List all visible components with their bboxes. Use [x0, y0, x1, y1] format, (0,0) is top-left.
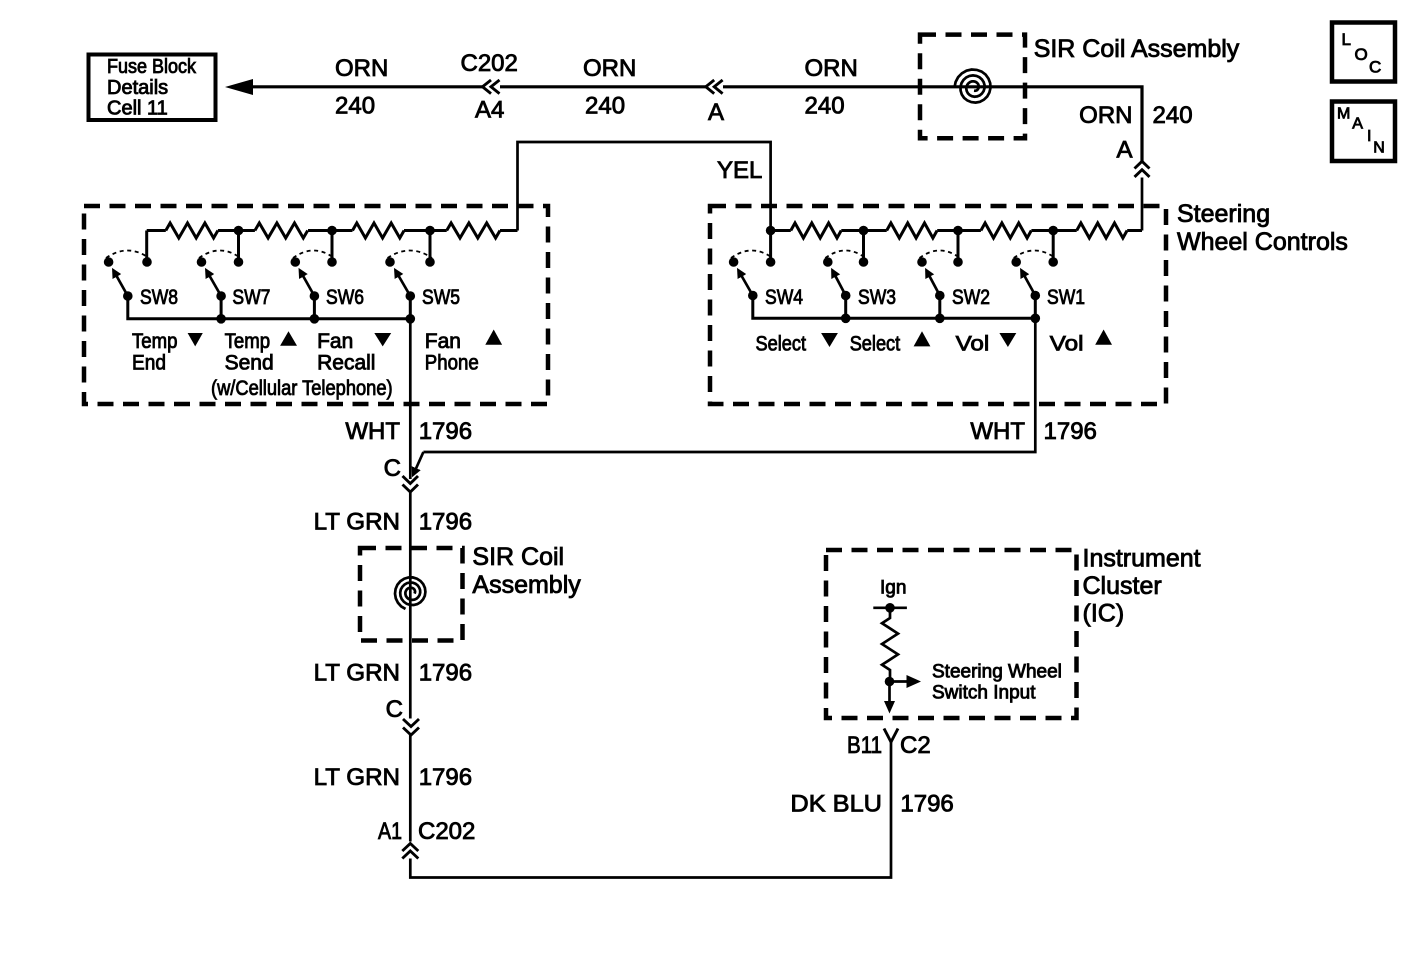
stub wires chain to contacts (left box)	[147, 231, 430, 263]
connector A chevrons (vertical run)	[1135, 161, 1150, 177]
svg-text:C202: C202	[418, 818, 475, 845]
svg-text:DK BLU: DK BLU	[790, 791, 882, 818]
resistor chain straight segments (right box)	[771, 229, 1142, 232]
bottom wire run to instrument cluster	[410, 742, 891, 878]
svg-text:ORN: ORN	[805, 55, 858, 82]
svg-text:Steering: Steering	[1177, 200, 1270, 228]
triangle down (select)	[821, 333, 838, 347]
resistor R (right box 1)	[791, 223, 841, 238]
chain node dots (left box)	[234, 226, 244, 236]
steering wheel controls box (right)	[710, 206, 1166, 404]
svg-text:Send: Send	[225, 352, 274, 375]
switch SW5 dashed arc	[388, 251, 433, 259]
svg-text:Temp: Temp	[225, 330, 271, 353]
switch SW1 contacts	[1011, 257, 1021, 267]
svg-text:Instrument: Instrument	[1083, 545, 1201, 573]
switch input branch wire	[890, 680, 908, 683]
svg-text:Wheel Controls: Wheel Controls	[1177, 228, 1348, 256]
switch SW3 dashed arc	[825, 251, 865, 259]
switch SW4 pivot	[748, 291, 758, 301]
svg-text:SW8: SW8	[140, 286, 178, 309]
connector A1 C202 chevrons	[402, 844, 418, 859]
switch SW2 dashed arc	[920, 251, 961, 259]
svg-text:1796: 1796	[419, 660, 472, 687]
resistor R (left box 3)	[353, 223, 405, 238]
resistor R (right box 4)	[1077, 223, 1127, 238]
switch SW5 contacts	[385, 257, 395, 267]
svg-text:1796: 1796	[419, 509, 472, 536]
svg-text:SW4: SW4	[765, 286, 803, 309]
svg-text:Recall: Recall	[317, 352, 375, 375]
svg-text:C: C	[386, 696, 403, 723]
svg-text:SW2: SW2	[952, 286, 990, 309]
chain node dots (right box)	[766, 226, 776, 236]
svg-text:LT GRN: LT GRN	[314, 509, 400, 536]
triangle down (fan recall)	[374, 333, 391, 346]
switch SW1 dashed arc	[1014, 251, 1055, 259]
switch SW5 arm	[396, 271, 411, 297]
switch common bus (left box)	[128, 296, 411, 319]
svg-text:Fan: Fan	[317, 330, 353, 353]
switch SW1 pivot	[1031, 291, 1041, 301]
resistor (instrument cluster pull-up)	[882, 608, 898, 682]
svg-text:Ign: Ign	[880, 578, 906, 599]
triangle up (vol)	[1095, 330, 1112, 345]
switch SW3 arm	[833, 271, 846, 296]
svg-text:L: L	[1342, 30, 1351, 49]
switch SW7 contacts	[197, 257, 207, 267]
svg-text:SW1: SW1	[1047, 286, 1085, 309]
svg-text:240: 240	[585, 93, 625, 120]
svg-text:Switch Input: Switch Input	[932, 683, 1036, 704]
svg-text:ORN: ORN	[335, 55, 388, 82]
svg-text:Cell 11: Cell 11	[107, 98, 168, 120]
MAIN legend box	[1332, 102, 1395, 162]
SIR coil spiral (middle)	[395, 577, 425, 609]
svg-text:ORN: ORN	[583, 55, 636, 82]
switch SW8 pivot	[123, 291, 133, 301]
svg-text:Vol: Vol	[956, 333, 990, 356]
svg-text:1796: 1796	[900, 791, 953, 818]
svg-text:A: A	[708, 99, 724, 126]
switch SW3 pivot	[841, 291, 851, 301]
svg-text:C: C	[1369, 58, 1381, 77]
svg-text:Fuse Block: Fuse Block	[107, 56, 197, 78]
svg-text:M: M	[1337, 105, 1350, 122]
switch SW3 contacts	[823, 257, 833, 267]
switch SW2 arm	[927, 271, 940, 296]
svg-text:A1: A1	[378, 818, 402, 845]
switch SW6 dashed arc	[293, 251, 334, 259]
switch SW8 dashed arc	[106, 251, 149, 259]
svg-text:1796: 1796	[419, 764, 472, 791]
svg-text:SW5: SW5	[422, 286, 460, 309]
SIR coil assembly box (top)	[920, 35, 1025, 139]
svg-text:WHT: WHT	[970, 418, 1025, 445]
svg-text:(IC): (IC)	[1083, 600, 1125, 628]
resistor chain straight segments (left box)	[147, 229, 518, 232]
wire WHT 1796 (left drop)	[409, 319, 412, 479]
svg-text:240: 240	[335, 93, 375, 120]
svg-text:1796: 1796	[419, 418, 472, 445]
svg-text:Select: Select	[850, 333, 901, 356]
Ign supply bar	[873, 606, 907, 609]
svg-text:End: End	[132, 352, 166, 375]
bus junction dots (left box)	[216, 314, 226, 324]
switch SW7 dashed arc	[199, 251, 241, 259]
diagonal merge wire with arrow at connector C	[413, 452, 423, 475]
pin socket symbol B11	[884, 729, 898, 743]
svg-text:Details: Details	[107, 77, 168, 99]
LOC legend box	[1332, 23, 1395, 82]
switch SW1 arm	[1022, 271, 1036, 296]
wire ORN 240 segment 3	[723, 87, 1142, 162]
svg-text:C: C	[384, 455, 401, 482]
svg-text:Vol: Vol	[1050, 333, 1084, 356]
fuse block details box	[89, 55, 216, 121]
svg-text:A: A	[1116, 137, 1132, 164]
svg-text:(w/Cellular Telephone): (w/Cellular Telephone)	[211, 377, 393, 400]
switch SW6 arm	[300, 271, 314, 297]
SIR coil assembly box (middle)	[360, 548, 463, 641]
svg-text:C202: C202	[461, 50, 518, 77]
switch SW7 arm	[207, 271, 222, 297]
SIR coil spiral (top)	[955, 70, 991, 103]
svg-text:Phone: Phone	[425, 352, 479, 375]
triangle up (fan phone)	[485, 330, 502, 345]
svg-text:N: N	[1373, 140, 1385, 157]
resistor R (right box 2)	[887, 223, 937, 238]
svg-text:240: 240	[1153, 102, 1193, 129]
steering wheel controls box (left)	[84, 206, 548, 404]
switch input arrowhead	[907, 675, 922, 688]
resistor R (left box 1)	[166, 223, 218, 238]
switch SW7 pivot	[216, 291, 226, 301]
node dot (switch input)	[885, 677, 895, 687]
svg-text:Cluster: Cluster	[1083, 572, 1162, 600]
svg-text:SIR Coil: SIR Coil	[472, 543, 564, 571]
wire LT GRN 1796 (upper)	[409, 492, 412, 719]
switch SW8 contacts	[104, 257, 114, 267]
connector C202 chevrons	[483, 80, 500, 94]
svg-text:SW7: SW7	[232, 286, 270, 309]
svg-text:O: O	[1355, 45, 1368, 64]
svg-text:B11: B11	[847, 732, 882, 759]
triangle down (temp end)	[188, 333, 203, 346]
svg-text:Steering Wheel: Steering Wheel	[932, 662, 1062, 683]
wire ORN 240 segment 1	[250, 85, 483, 88]
Ign node dot	[885, 603, 895, 613]
wire down to pin B11	[888, 682, 891, 702]
svg-text:YEL: YEL	[717, 157, 762, 184]
wire ORN into steering wheel controls	[1141, 178, 1144, 231]
svg-text:Assembly: Assembly	[472, 571, 581, 599]
stub wires chain to contacts (right box)	[771, 231, 1054, 263]
svg-text:Temp: Temp	[132, 330, 178, 353]
svg-text:Fan: Fan	[425, 330, 461, 353]
svg-text:ORN: ORN	[1079, 102, 1132, 129]
svg-text:Select: Select	[756, 333, 807, 356]
switch SW6 contacts	[291, 257, 301, 267]
switch SW8 arm	[114, 271, 128, 297]
svg-text:240: 240	[805, 93, 845, 120]
in-line connector A chevrons	[706, 80, 723, 94]
svg-text:I: I	[1367, 128, 1371, 145]
svg-text:SIR Coil Assembly: SIR Coil Assembly	[1034, 35, 1240, 63]
svg-text:SW3: SW3	[858, 286, 896, 309]
instrument cluster box	[826, 550, 1077, 718]
wire YEL	[518, 142, 771, 231]
switch SW6 pivot	[310, 291, 320, 301]
switch SW4 contacts	[729, 257, 739, 267]
triangle up (select)	[914, 331, 931, 346]
switch SW4 dashed arc	[731, 251, 773, 259]
switch common bus (right box)	[753, 296, 1036, 319]
wire ORN 240 segment 2	[500, 85, 706, 88]
triangle up (temp send)	[280, 331, 297, 346]
svg-text:C2: C2	[900, 732, 931, 759]
switch SW5 pivot	[406, 291, 416, 301]
svg-text:SW6: SW6	[326, 286, 364, 309]
resistor R (left box 4)	[447, 223, 500, 238]
svg-text:WHT: WHT	[345, 418, 400, 445]
switch SW2 pivot	[935, 291, 945, 301]
arrowhead into fuse block	[225, 79, 253, 95]
arrowhead at box edge	[884, 701, 895, 714]
connector C chevron (upper)	[403, 476, 419, 492]
wire LT GRN 1796 (lower)	[409, 735, 412, 842]
svg-text:LT GRN: LT GRN	[314, 764, 400, 791]
bus junction dots (right box)	[841, 314, 851, 324]
triangle down (vol)	[999, 333, 1016, 347]
svg-text:A: A	[1352, 115, 1363, 132]
svg-text:A4: A4	[475, 97, 504, 124]
wire WHT 1796 (right drop)	[423, 318, 1035, 452]
svg-text:1796: 1796	[1044, 418, 1097, 445]
resistor R (right box 3)	[981, 223, 1031, 238]
svg-text:LT GRN: LT GRN	[314, 660, 400, 687]
switch SW4 arm	[739, 271, 753, 296]
switch SW2 contacts	[917, 257, 927, 267]
connector C chevrons (lower)	[403, 719, 419, 735]
resistor R (left box 2)	[255, 223, 308, 238]
